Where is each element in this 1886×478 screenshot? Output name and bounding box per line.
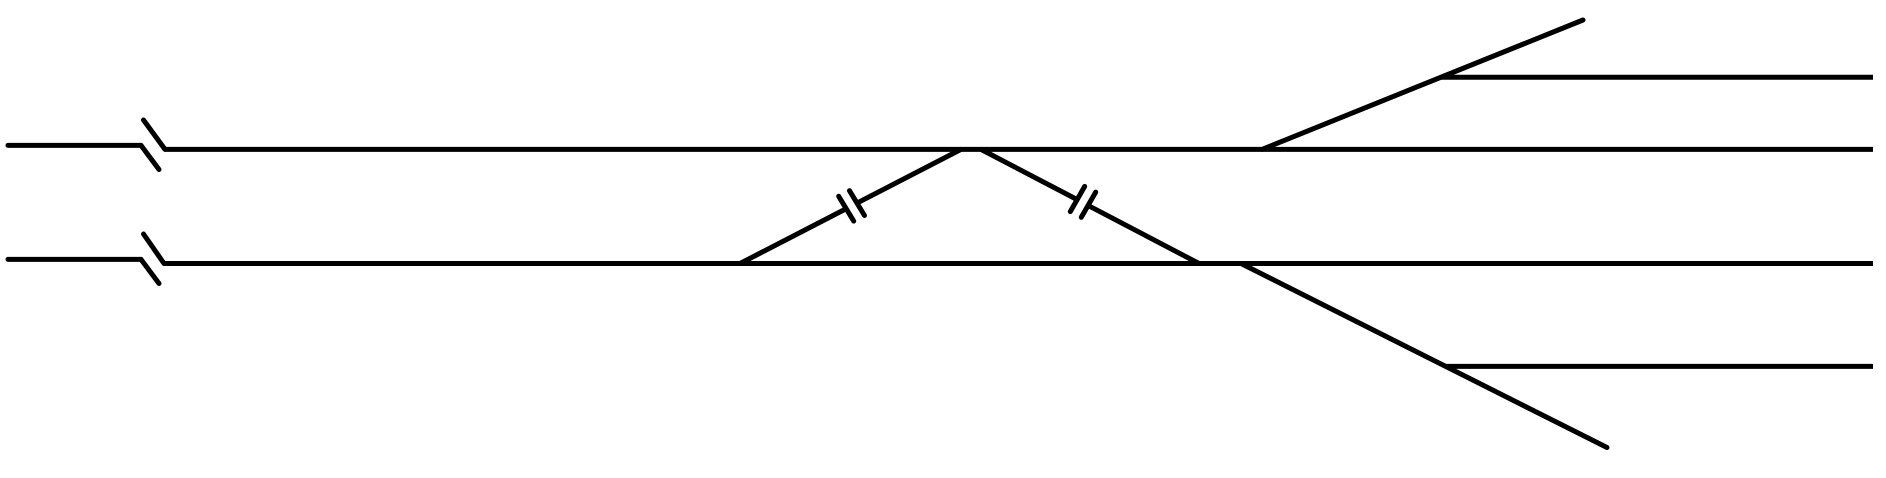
wire upper siding horizontal [1441,75,1873,80]
insulated joint tick 2 on descending diagonal [1081,192,1095,217]
wire crossover descending diagonal, lower segment [1090,206,1200,263]
wire crossover ascending diagonal, upper segment [858,149,962,202]
wire crossover ascending diagonal, lower segment [740,210,844,264]
wire branch diagonal to upper right [1262,20,1583,149]
break symbol lower line, lower slash [141,259,159,283]
insulated joint tick 1 on descending diagonal [1070,186,1084,211]
break symbol upper line, lower slash [141,145,159,169]
wire lower siding horizontal [1446,364,1873,369]
wire upper main track (right of break) [165,147,1873,152]
break symbol lower line, upper slash [144,234,165,264]
wire diverging track to lower right siding [1241,264,1607,448]
wire crossover descending diagonal, upper segment [981,149,1075,198]
insulated joint tick 2 on ascending diagonal [850,191,865,216]
wire lower main track (right of break) [164,261,1873,266]
wire top-left stub (upper main track, left of break) [8,143,141,148]
insulated joint tick 1 on ascending diagonal [839,196,854,221]
break symbol upper line, upper slash [144,120,166,149]
wire bottom-left stub (lower main track, left of break) [8,257,141,262]
